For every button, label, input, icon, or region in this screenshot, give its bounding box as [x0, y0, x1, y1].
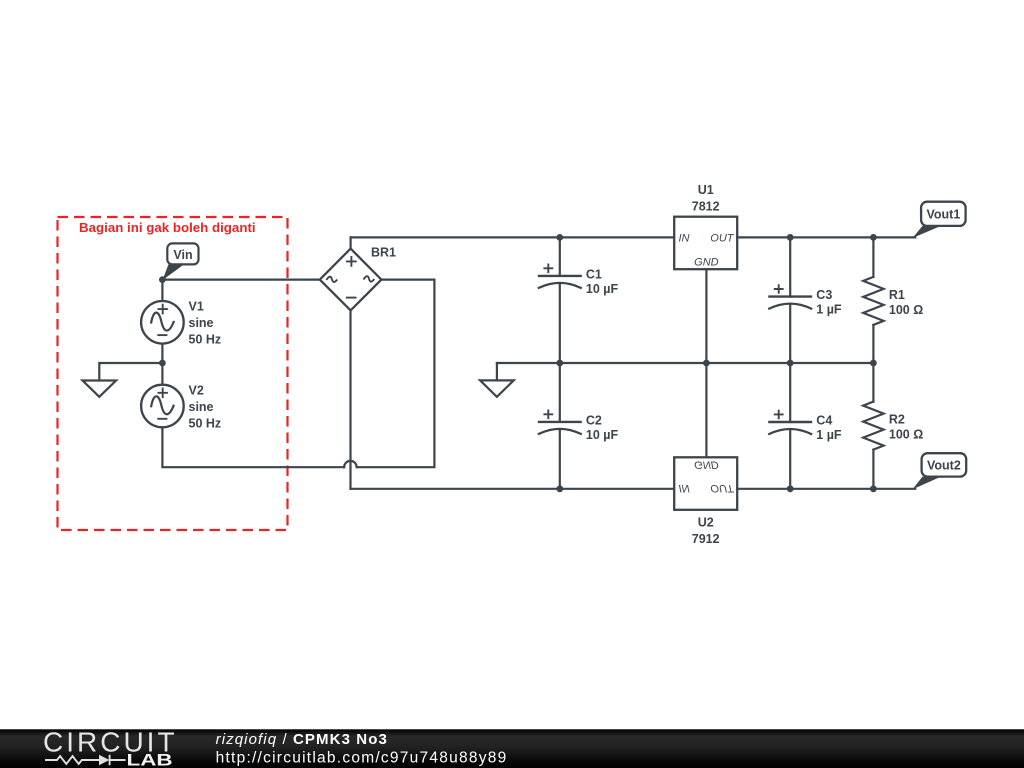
node mid U1/U2 GND	[703, 360, 710, 367]
node C2 bottom	[556, 485, 563, 492]
net flag Vout2	[913, 453, 967, 489]
svg-text:100 Ω: 100 Ω	[889, 303, 923, 317]
capacitor C4	[768, 363, 812, 489]
wire Vin node down to V1 top	[161, 280, 163, 302]
svg-text:Vout1: Vout1	[927, 208, 961, 222]
svg-text:7812: 7812	[692, 200, 720, 214]
svg-text:50 Hz: 50 Hz	[189, 416, 222, 430]
wire BR1 top vertex stub	[350, 237, 352, 248]
node C4 bottom	[787, 485, 794, 492]
capacitor C3	[768, 237, 812, 363]
svg-text:GND: GND	[694, 458, 719, 470]
label C2 value	[586, 413, 619, 442]
voltage source V1	[141, 301, 184, 344]
regulator U2 7912 (flipped)	[674, 457, 737, 510]
wire hop	[344, 461, 357, 467]
voltage source V2	[141, 385, 184, 428]
svg-text:Bagian ini gak boleh diganti: Bagian ini gak boleh diganti	[79, 220, 256, 235]
svg-text:50 Hz: 50 Hz	[189, 333, 222, 347]
svg-text:C2: C2	[586, 413, 602, 427]
resistor R2	[863, 363, 883, 489]
resistor R1	[863, 237, 883, 363]
svg-text:C4: C4	[816, 413, 832, 427]
svg-text:IN: IN	[679, 233, 690, 245]
wire mid ground rail	[497, 362, 874, 364]
wire bottom rail U2 OUT to Vout2	[737, 488, 915, 490]
annotation red dashed box	[58, 217, 288, 530]
wire mid ground stem	[496, 363, 498, 380]
wire junction to V2 top	[161, 363, 163, 385]
svg-text:U1: U1	[698, 183, 714, 197]
svg-text:1 µF: 1 µF	[816, 428, 842, 442]
label C3 value	[816, 288, 842, 317]
svg-text:U2: U2	[698, 515, 714, 529]
node R1 top	[870, 234, 877, 241]
svg-text:10 µF: 10 µF	[586, 282, 619, 296]
wire hop right to corner and up to BR1 right vertex	[357, 280, 435, 468]
footer logo CIRCUIT	[43, 727, 178, 758]
capacitor C2	[538, 363, 582, 489]
label R1 value	[889, 288, 923, 317]
wire BR1 bottom stub down to bottom rail	[349, 310, 351, 488]
node mid C3/C4	[787, 360, 794, 367]
label V1 value	[189, 300, 222, 347]
svg-text:sine: sine	[189, 316, 214, 330]
svg-text:1 µF: 1 µF	[816, 303, 842, 317]
svg-text:100 Ω: 100 Ω	[889, 428, 923, 442]
footer logo LAB	[127, 751, 173, 768]
wire V2 bottom down and right with hop over BR1 stub	[162, 427, 344, 467]
svg-text:IN: IN	[679, 482, 690, 494]
label C4 value	[816, 413, 842, 442]
svg-text:BR1: BR1	[371, 245, 396, 259]
svg-text:C1: C1	[586, 267, 602, 281]
wire bottom rail to U2	[351, 488, 675, 490]
label R2 value	[889, 413, 923, 442]
node R2 bottom	[870, 485, 877, 492]
bridge rectifier BR1	[320, 249, 382, 311]
wire junction to left ground	[99, 363, 162, 381]
node mid C1/C2	[556, 360, 563, 367]
annotation text "Bagian ini gak boleh diganti"	[79, 220, 256, 235]
label V2 value	[189, 383, 222, 430]
svg-text:LAB: LAB	[127, 751, 173, 768]
footer logo resistor-diode glyph	[45, 755, 126, 765]
ground GND1	[83, 381, 117, 397]
node C1 top	[556, 234, 563, 241]
node mid R1/R2	[870, 360, 877, 367]
footer url line	[216, 749, 508, 766]
wire U2 GND stub from mid rail	[705, 363, 707, 457]
wire top rail BR1 to U1 IN	[351, 236, 675, 238]
wire Vin node to BR1 left vertex	[162, 279, 319, 281]
node Vin junction	[159, 276, 166, 283]
svg-text:sine: sine	[189, 400, 214, 414]
capacitor C1	[538, 237, 582, 363]
svg-text:http://circuitlab.com/c97u748u: http://circuitlab.com/c97u748u88y89	[216, 749, 508, 766]
svg-text:C3: C3	[816, 288, 832, 302]
regulator U1 7812	[674, 217, 737, 270]
label U1 7812	[692, 183, 720, 214]
svg-text:GND: GND	[694, 257, 719, 269]
svg-text:Vin: Vin	[173, 248, 192, 262]
wire U1 GND stub	[705, 269, 707, 363]
svg-text:Vout2: Vout2	[927, 459, 961, 473]
net flag Vout1	[913, 202, 966, 238]
label BR1	[371, 245, 396, 259]
svg-text:10 µF: 10 µF	[586, 428, 619, 442]
svg-text:V1: V1	[189, 300, 204, 314]
svg-text:R1: R1	[889, 288, 905, 302]
node V1/V2 junction	[159, 360, 166, 367]
svg-text:V2: V2	[189, 383, 204, 397]
wire V1 bottom to center junction	[161, 344, 163, 363]
node C3 top	[787, 234, 794, 241]
label C1 value	[586, 267, 619, 296]
footer title line	[216, 731, 388, 748]
svg-text:OUT: OUT	[710, 482, 735, 494]
svg-text:OUT: OUT	[710, 233, 735, 245]
svg-text:rizqiofiq / CPMK3 No3: rizqiofiq / CPMK3 No3	[216, 731, 388, 748]
label U2 7912	[692, 515, 720, 546]
svg-text:7912: 7912	[692, 532, 720, 546]
net flag Vin	[162, 243, 198, 280]
svg-text:R2: R2	[889, 413, 905, 427]
footer bar	[0, 729, 1024, 768]
wire top rail U1 OUT to Vout1	[737, 236, 915, 238]
ground GND2	[480, 380, 514, 396]
